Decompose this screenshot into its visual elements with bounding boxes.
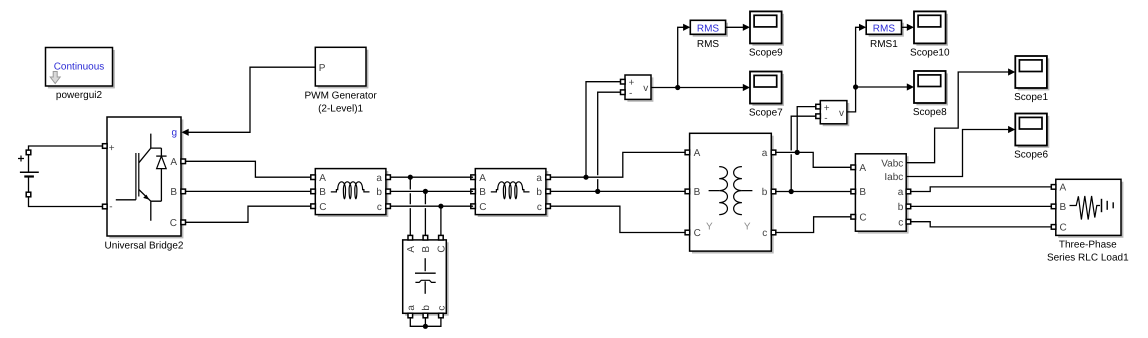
capacitor port squares <box>408 235 443 317</box>
svg-text:v: v <box>643 83 648 94</box>
junction VM2 out <box>853 84 858 89</box>
svg-text:Y: Y <box>744 221 751 232</box>
label Three-Phase Series RLC Load1 <box>1047 240 1129 264</box>
block three-phase series RLC branch L2 (inductor) <box>475 169 548 217</box>
block PWM Generator (2-Level)1 <box>304 47 377 114</box>
wire VM1 - probe to phase b (gap at crossing) <box>598 92 621 191</box>
junction VM1+ on phase a <box>583 175 588 180</box>
wire L2 c to transformer C <box>550 206 687 232</box>
inductor coil icon L2 <box>491 182 530 199</box>
svg-text:(2-Level)1: (2-Level)1 <box>318 103 363 114</box>
svg-text:B: B <box>479 187 486 198</box>
svg-text:b: b <box>536 187 542 198</box>
svg-text:Three-Phase: Three-Phase <box>1059 240 1117 251</box>
svg-text:B: B <box>421 246 432 253</box>
wire tap a down to capacitor A (gaps at crossings) <box>409 177 411 235</box>
inductor coil icon L1 <box>331 182 370 199</box>
wire RMS to Scope9 <box>726 24 750 31</box>
svg-text:RMS: RMS <box>697 23 720 34</box>
block three-phase V-I measurement <box>855 154 908 234</box>
diode inside bridge <box>156 148 166 201</box>
junction phase a tap <box>408 175 413 180</box>
svg-text:Series RLC Load1: Series RLC Load1 <box>1047 252 1129 263</box>
port squares L1 <box>311 175 391 209</box>
svg-text:c: c <box>377 202 382 213</box>
svg-text:B: B <box>319 187 326 198</box>
block Three-Phase Series RLC Load1 <box>1056 179 1124 237</box>
wire transformer c to VI C <box>776 217 854 233</box>
svg-text:C: C <box>437 245 448 252</box>
transistor IGBT inside bridge <box>116 134 162 221</box>
wire RMS1 to Scope10 <box>902 24 914 31</box>
svg-text:A: A <box>170 157 177 168</box>
DC voltage source battery <box>18 150 39 197</box>
svg-text:g: g <box>171 127 177 138</box>
svg-text:Scope9: Scope9 <box>749 47 783 58</box>
svg-text:-: - <box>629 88 632 99</box>
scope Scope1 <box>1014 56 1049 103</box>
transformer port squares <box>685 150 776 235</box>
wire battery- to bridge - <box>29 197 104 207</box>
wire L1 b to L2 B <box>390 190 473 192</box>
svg-text:A: A <box>694 148 701 159</box>
block Universal Bridge2 <box>107 117 183 238</box>
wire PWM P to bridge g (signal) <box>182 67 316 136</box>
RLC port squares <box>1051 185 1056 230</box>
junction VM2+ on phase a <box>795 150 800 155</box>
svg-text:B: B <box>859 187 866 198</box>
svg-text:Scope7: Scope7 <box>749 107 783 118</box>
svg-text:Iabc: Iabc <box>884 172 903 183</box>
wire VI a to RLC load A <box>911 187 1054 192</box>
svg-text:a: a <box>406 305 417 311</box>
svg-text:Scope10: Scope10 <box>910 47 950 58</box>
block voltage measurement VM1 <box>621 75 654 102</box>
scope Scope6 <box>1014 114 1049 161</box>
block RMS1 <box>866 20 904 50</box>
VI port squares <box>851 165 911 224</box>
svg-text:B: B <box>170 187 177 198</box>
svg-text:a: a <box>898 187 904 198</box>
junction phase c tap <box>438 204 443 209</box>
transformer windings icon <box>706 167 752 233</box>
svg-text:powergui2: powergui2 <box>56 90 103 101</box>
svg-text:c: c <box>762 228 767 239</box>
wire VM2 - probe down to phase b (gap at crossing) <box>791 116 816 191</box>
block RMS <box>690 20 728 50</box>
block three-phase transformer <box>690 133 774 253</box>
capacitor icon <box>415 258 436 294</box>
wire Vabc to Scope1 (signal) <box>906 68 1015 162</box>
wire L1 c to L2 C <box>390 205 473 207</box>
scope Scope7 <box>749 72 784 119</box>
svg-text:-: - <box>824 113 827 124</box>
wire L2 b to transformer B <box>550 190 687 192</box>
svg-text:C: C <box>319 202 326 213</box>
wire bridge C to L1 C <box>185 206 311 222</box>
svg-text:B: B <box>694 187 701 198</box>
wire VM2 out to Scope8 <box>856 83 914 90</box>
svg-text:+: + <box>109 143 115 154</box>
svg-text:b: b <box>898 202 904 213</box>
svg-text:Scope8: Scope8 <box>913 107 947 118</box>
svg-text:A: A <box>1060 182 1067 193</box>
svg-text:RMS1: RMS1 <box>870 39 898 50</box>
wire transformer a to VI A <box>776 152 854 167</box>
junction phase b tap <box>423 189 428 194</box>
svg-text:b: b <box>421 305 432 311</box>
svg-text:RMS: RMS <box>873 23 896 34</box>
block three-phase series RLC branch L1 (inductor) <box>315 169 388 217</box>
svg-text:c: c <box>437 306 448 311</box>
wire capacitor star short <box>410 318 441 327</box>
wire VI b to RLC load B <box>911 205 1054 207</box>
svg-text:b: b <box>376 187 382 198</box>
svg-text:Scope1: Scope1 <box>1014 92 1048 103</box>
svg-text:A: A <box>859 163 866 174</box>
svg-text:C: C <box>859 212 866 223</box>
svg-text:PWM Generator: PWM Generator <box>304 90 377 101</box>
svg-text:Scope6: Scope6 <box>1014 149 1048 160</box>
wire bridge A to L1 A <box>185 161 311 177</box>
svg-text:a: a <box>536 173 542 184</box>
svg-text:a: a <box>762 148 768 159</box>
wire tap c down to capacitor C <box>440 206 442 235</box>
svg-text:C: C <box>479 202 486 213</box>
svg-text:P: P <box>319 63 326 74</box>
port squares L2 <box>471 175 551 209</box>
wire Iabc to Scope6 (signal) <box>906 126 1015 177</box>
junction VM1 out <box>675 85 680 90</box>
svg-text:-: - <box>109 201 112 212</box>
svg-text:B: B <box>1060 202 1067 213</box>
svg-text:c: c <box>898 217 903 228</box>
wire L2 a to transformer A <box>550 152 687 177</box>
bridge port squares <box>103 144 186 225</box>
label Universal Bridge2 <box>105 240 184 251</box>
block voltage measurement VM2 <box>816 101 850 127</box>
svg-text:RMS: RMS <box>697 39 720 50</box>
svg-text:Y: Y <box>706 221 713 232</box>
block capacitor bank (rotated RLC branch) <box>403 240 449 316</box>
scope Scope8 <box>913 71 948 118</box>
svg-text:a: a <box>376 173 382 184</box>
block powergui2 <box>46 48 115 102</box>
svg-text:A: A <box>319 173 326 184</box>
svg-text:c: c <box>537 202 542 213</box>
svg-text:Universal Bridge2: Universal Bridge2 <box>105 240 184 251</box>
svg-text:Continuous: Continuous <box>54 62 105 73</box>
junction VM2- on phase b <box>789 189 794 194</box>
svg-text:C: C <box>694 228 701 239</box>
wire tap b down to capacitor B <box>424 191 426 235</box>
scope Scope9 <box>749 11 784 58</box>
scope Scope10 <box>910 11 950 58</box>
svg-text:A: A <box>479 173 486 184</box>
wire VM1 out up to RMS <box>678 24 691 88</box>
wire VM1 v out to Scope7 <box>651 84 750 91</box>
junction capacitor star <box>423 324 428 329</box>
wire VM2 + probe down to phase a <box>797 107 816 153</box>
junction VM1- on phase b <box>595 189 600 194</box>
wire transformer b to VI B <box>776 191 854 193</box>
svg-text:A: A <box>406 246 417 253</box>
wire VM1 + probe to phase a <box>586 82 621 178</box>
svg-text:C: C <box>1060 222 1067 233</box>
svg-text:b: b <box>762 187 768 198</box>
wire bridge B to L1 B <box>185 190 311 192</box>
wire VM2 v out up to RMS1 <box>847 24 866 112</box>
wire VI c to RLC load C <box>911 222 1054 227</box>
wire L1 a to L2 A <box>390 176 473 178</box>
svg-text:Vabc: Vabc <box>881 158 903 169</box>
svg-text:C: C <box>170 218 177 229</box>
svg-text:v: v <box>839 108 844 119</box>
RLC load icon resistor zigzag and capacitor <box>1070 196 1114 220</box>
wire battery+ to bridge + <box>29 146 104 150</box>
